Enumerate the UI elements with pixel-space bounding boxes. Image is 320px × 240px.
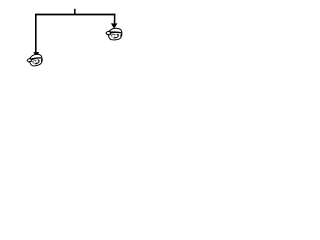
background <box>0 0 150 78</box>
part A: left clip fastener icon <box>26 53 43 67</box>
arrowhead: right arrow pointing down at part B <box>111 23 118 28</box>
arrowhead: left arrow pointing down at part A <box>33 52 39 57</box>
tick: center reference tick on leader line <box>74 9 76 15</box>
part B: right clip fastener icon <box>106 28 122 40</box>
wire: left vertical leader line <box>35 14 37 53</box>
wire: right vertical leader line <box>114 14 116 24</box>
wire: top horizontal leader line <box>35 14 115 16</box>
